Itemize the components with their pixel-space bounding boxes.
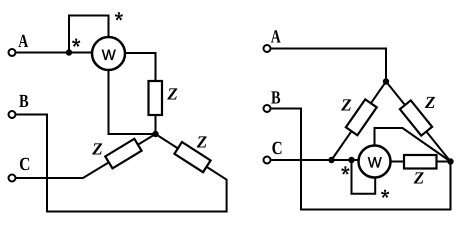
svg-text:W: W	[368, 155, 383, 172]
svg-text:Z: Z	[91, 139, 102, 158]
wire wattmeter to Z1	[109, 53, 156, 81]
polarity mark * at loop corner	[115, 12, 123, 20]
wire phase A to delta top vertex	[271, 49, 387, 82]
svg-text:C: C	[19, 155, 30, 175]
terminal B right	[264, 105, 271, 112]
svg-text:A: A	[18, 32, 28, 52]
wire wattmeter bottom to star node	[109, 54, 156, 135]
terminal C	[9, 175, 16, 182]
wire phase B leg, bottom rail and B line	[16, 115, 227, 212]
svg-text:B: B	[271, 89, 281, 109]
impedance Z2 (phase C leg, angled)	[105, 139, 141, 169]
wire delta right side	[386, 82, 451, 162]
wire phase B line, bottom rail to right vertex	[271, 109, 451, 210]
svg-text:Z: Z	[424, 93, 435, 112]
node junction A-line	[66, 49, 72, 55]
terminal B	[9, 111, 16, 118]
svg-text:C: C	[272, 139, 283, 159]
wire wattmeter to Z6	[375, 161, 405, 163]
polarity mark * at junction	[72, 39, 80, 47]
wire Z1 to star node	[155, 115, 157, 134]
node delta bottom-right vertex	[447, 158, 453, 164]
terminal A	[9, 49, 16, 56]
wire phase A to wattmeter	[16, 52, 109, 54]
node delta bottom-left vertex	[328, 157, 334, 163]
terminal A right	[264, 45, 271, 52]
op-amp wattmeter W1 body	[92, 37, 125, 70]
terminal C right	[264, 157, 271, 164]
svg-text:Z: Z	[196, 132, 207, 151]
wire wattmeter voltage-coil bottom loop	[352, 160, 376, 194]
node voltage tap	[348, 157, 354, 163]
node delta top vertex	[383, 78, 389, 84]
impedance Z6 (delta bottom, horizontal)	[404, 155, 437, 169]
svg-text:A: A	[271, 28, 281, 48]
wire phase C leg (star to C line)	[16, 134, 156, 178]
svg-text:W: W	[102, 47, 117, 64]
svg-text:Z: Z	[340, 96, 351, 115]
wire wattmeter top voltage lead to right vertex	[375, 128, 451, 162]
polarity mark * at tap	[341, 166, 349, 174]
impedance Z1 (phase A, vertical)	[149, 81, 163, 115]
svg-text:Z: Z	[166, 84, 177, 103]
svg-text:Z: Z	[413, 169, 424, 188]
op-amp wattmeter W2 body	[359, 146, 391, 178]
node star point	[152, 131, 158, 137]
wire Z6 to right vertex	[437, 161, 451, 163]
wire wattmeter voltage-coil loop	[69, 16, 109, 54]
impedance Z5 (delta right side, angled)	[400, 100, 432, 135]
svg-text:B: B	[19, 92, 29, 112]
impedance Z4 (delta left side, angled)	[346, 99, 377, 135]
impedance Z3 (phase B leg, angled)	[174, 142, 210, 172]
polarity mark * at loop	[381, 190, 389, 198]
wire delta left side	[332, 82, 387, 161]
wire phase C to wattmeter	[271, 159, 375, 161]
